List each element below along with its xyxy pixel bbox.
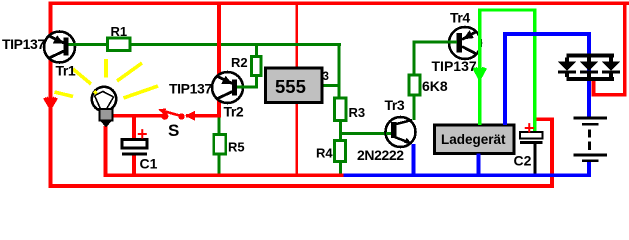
resistor R4 bbox=[335, 141, 346, 162]
wire: red switch to middle drop bbox=[186, 114, 219, 118]
svg-text:R3: R3 bbox=[349, 105, 366, 120]
svg-text:6K8: 6K8 bbox=[422, 78, 448, 94]
wire: C1 bottom lead bbox=[132, 155, 136, 174]
lamp ray up bbox=[104, 59, 108, 78]
wire: blue bottom rail bbox=[344, 174, 591, 178]
wire: red +12V top rail bbox=[49, 2, 629, 6]
wire: blue drop through solar diodes to battery bbox=[587, 32, 591, 117]
wire: 555 pin 3 output bbox=[322, 84, 341, 87]
svg-text:R5: R5 bbox=[228, 140, 245, 155]
svg-text:S: S bbox=[168, 121, 179, 140]
svg-text:Tr3: Tr3 bbox=[385, 97, 405, 113]
lamp sparkle bbox=[93, 90, 98, 95]
lamp ray left bbox=[55, 92, 74, 97]
svg-text:R2: R2 bbox=[231, 55, 248, 70]
svg-text:+: + bbox=[524, 118, 535, 138]
svg-text:R1: R1 bbox=[111, 24, 128, 39]
svg-text:555: 555 bbox=[275, 76, 306, 97]
svg-text:TIP137: TIP137 bbox=[169, 81, 212, 97]
svg-text:TIP137: TIP137 bbox=[2, 36, 45, 52]
arrow: switch lever tip bbox=[158, 108, 166, 114]
wire: red lamp bottom lead bbox=[104, 126, 108, 175]
arrow: current direction on lime wire bbox=[474, 68, 486, 80]
wire: blue battery bottom lead bbox=[587, 162, 591, 178]
wire: lime drop to C2 plus bbox=[533, 9, 537, 133]
resistor R5 bbox=[214, 135, 226, 155]
wire: C1 top lead bbox=[132, 117, 136, 140]
lamp ray right bbox=[124, 86, 159, 98]
wire: R5 bottom lead bbox=[218, 154, 221, 175]
arrow: current direction into switch bbox=[185, 111, 195, 121]
wire: blue drop to charger top bbox=[503, 32, 507, 125]
capacitor C2 bbox=[520, 132, 543, 174]
switch S contact dot right bbox=[178, 113, 184, 119]
wire: red riser from bottom rail to C2 plus bbox=[550, 119, 554, 188]
resistor R3 bbox=[335, 98, 347, 121]
wire: red horizontal to solar diodes bbox=[592, 93, 627, 97]
wire: R3 to R4 junction vertical bbox=[339, 121, 342, 141]
wire: R5 top lead bbox=[218, 118, 221, 136]
transistor Tr2 TIP137 bbox=[212, 72, 245, 103]
battery bbox=[574, 117, 608, 163]
transistor Tr3 2N2222 bbox=[386, 117, 416, 147]
svg-text:Ladegerät: Ladegerät bbox=[441, 132, 506, 147]
svg-text:R4: R4 bbox=[316, 146, 333, 161]
wire: R2 top lead bbox=[255, 46, 258, 57]
wire: green base line crossing over thin red drop bbox=[294, 43, 301, 46]
transistor Tr1 TIP137 bbox=[44, 32, 77, 63]
op-amp timer U1 555 box bbox=[266, 68, 323, 103]
wire: thin red drop from top rail behind 555 to bottom node bbox=[296, 5, 298, 174]
resistor R2 bbox=[252, 57, 262, 76]
wire: lime top link bbox=[478, 9, 537, 12]
resistor R1 bbox=[108, 38, 131, 51]
wire: red left supply rail bbox=[49, 2, 53, 189]
wire: red lamp to switch bbox=[110, 114, 165, 118]
lamp ray upper-left bbox=[73, 69, 91, 84]
switch S lever bbox=[161, 110, 184, 116]
wire: green base line from Tr1 through R1 to node above R3 bbox=[66, 43, 341, 46]
wire: red riser to diode bottom bar bbox=[592, 81, 596, 93]
lamp socket tip bbox=[100, 121, 112, 128]
wire: blue top link bbox=[503, 32, 591, 36]
wire: Tr3 base wire bbox=[341, 132, 387, 135]
diode array solar cells bbox=[558, 54, 621, 82]
wire: red middle drop from top rail to switch bbox=[217, 5, 221, 118]
svg-text:Tr1: Tr1 bbox=[56, 63, 76, 79]
lamp glass bbox=[92, 87, 116, 111]
lamp ray upper-right bbox=[117, 63, 142, 81]
svg-text:3: 3 bbox=[323, 71, 329, 83]
wire: blue Tr3 emitter lead bbox=[412, 144, 416, 174]
svg-text:C2: C2 bbox=[514, 153, 532, 169]
lamp socket bbox=[100, 109, 113, 121]
capacitor C1 bbox=[122, 140, 147, 156]
svg-text:Tr2: Tr2 bbox=[224, 104, 244, 120]
wire: Tr4 base wire and 6K8 top lead bbox=[413, 41, 458, 76]
wire: blue charger bottom lead bbox=[477, 154, 481, 178]
wire: R2 bottom lead elbow bbox=[237, 76, 258, 88]
wire: R4 bottom lead bbox=[339, 162, 342, 176]
wire: red branch to C2 plus bbox=[537, 118, 555, 122]
svg-text:Tr4: Tr4 bbox=[450, 10, 470, 26]
svg-text:TIP137: TIP137 bbox=[432, 58, 477, 74]
arrow: current direction on left rail bbox=[45, 98, 57, 109]
Ladegeraet charger box bbox=[435, 125, 515, 154]
svg-text:2N2222: 2N2222 bbox=[357, 147, 404, 163]
wire: red rail from lamp to R4 node bbox=[104, 174, 344, 178]
svg-text:+: + bbox=[137, 124, 148, 144]
transistor Tr4 TIP137 bbox=[448, 27, 481, 59]
wire: 6K8 bottom lead to Tr3 collector bbox=[413, 95, 416, 120]
wire: red right border drop bbox=[623, 2, 627, 97]
wire: green vertical from R1 line down to R3 bbox=[338, 43, 341, 98]
switch S contact dot left bbox=[161, 113, 168, 120]
resistor 6K8 bbox=[409, 75, 420, 95]
wire: lime Tr4 collector to charger bbox=[478, 9, 482, 126]
svg-text:C1: C1 bbox=[140, 156, 158, 172]
wire: red bottom rail bbox=[49, 184, 555, 188]
